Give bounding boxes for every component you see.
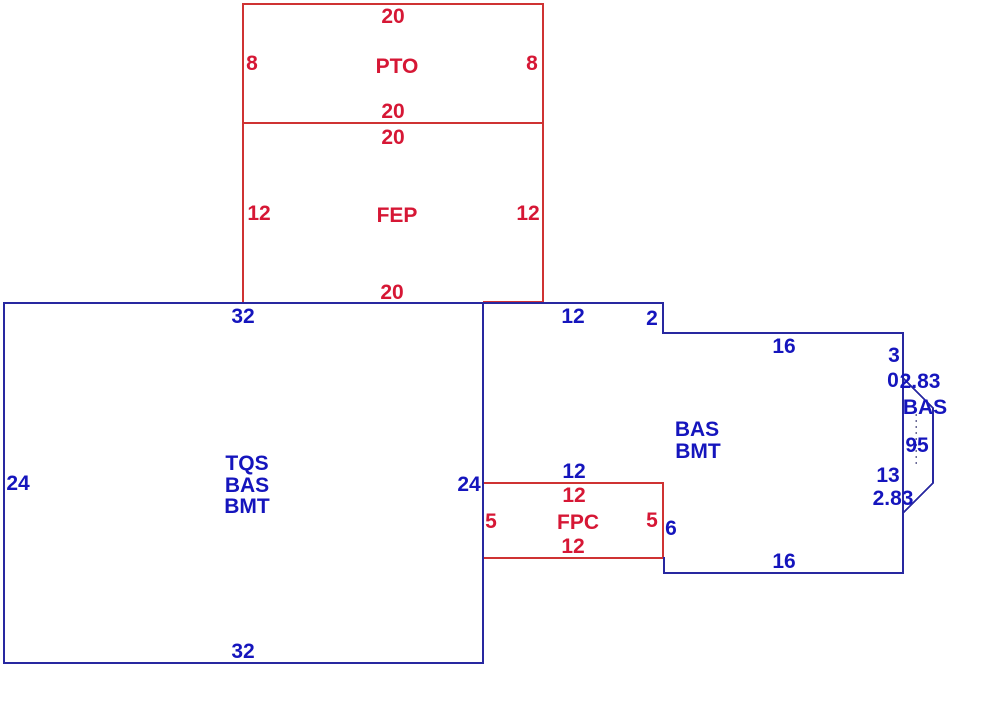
svg-text:20: 20	[381, 100, 404, 123]
svg-text:FPC: FPC	[557, 511, 599, 534]
svg-text:2.83: 2.83	[900, 370, 941, 393]
svg-text:6: 6	[665, 517, 677, 540]
svg-text:PTO: PTO	[376, 55, 419, 78]
svg-text:24: 24	[457, 473, 481, 496]
room outline BAS/BMT right wing (blue polyline)	[483, 303, 903, 573]
svg-text:12: 12	[562, 460, 585, 483]
svg-text:BAS: BAS	[225, 474, 269, 497]
svg-text:13: 13	[876, 464, 899, 487]
svg-text:8: 8	[246, 52, 258, 75]
room outline PTO (red rectangle)	[243, 4, 543, 123]
svg-text:BMT: BMT	[224, 495, 270, 518]
svg-text:3: 3	[888, 344, 900, 367]
room outline FEP (red, open bottom)	[243, 123, 543, 303]
svg-text:20: 20	[380, 281, 403, 304]
svg-text:20: 20	[381, 126, 404, 149]
svg-text:12: 12	[561, 535, 584, 558]
svg-text:TQS: TQS	[225, 452, 268, 475]
svg-text:16: 16	[772, 335, 795, 358]
room outline FPC (red rectangle)	[483, 483, 663, 558]
svg-text:12: 12	[561, 305, 584, 328]
svg-text:BMT: BMT	[675, 440, 721, 463]
svg-text:12: 12	[516, 202, 539, 225]
svg-text:12: 12	[562, 484, 585, 507]
svg-text:20: 20	[381, 5, 404, 28]
svg-text:2.83: 2.83	[873, 487, 914, 510]
svg-text:5: 5	[485, 510, 497, 533]
svg-text:32: 32	[231, 640, 254, 663]
svg-text:95: 95	[905, 434, 929, 457]
svg-text:12: 12	[247, 202, 270, 225]
svg-text:BAS: BAS	[903, 396, 947, 419]
svg-text:5: 5	[646, 509, 658, 532]
svg-text:BAS: BAS	[675, 418, 719, 441]
svg-text:8: 8	[526, 52, 538, 75]
bay chord dashed line	[915, 414, 917, 466]
svg-text:FEP: FEP	[377, 204, 418, 227]
svg-text:0: 0	[887, 369, 899, 392]
svg-text:24: 24	[6, 472, 30, 495]
svg-text:32: 32	[231, 305, 254, 328]
room outline TQS/BAS/BMT (blue rectangle)	[4, 303, 483, 663]
svg-text:2: 2	[646, 307, 658, 330]
svg-text:16: 16	[772, 550, 795, 573]
bay window protrusion (blue)	[903, 378, 933, 513]
